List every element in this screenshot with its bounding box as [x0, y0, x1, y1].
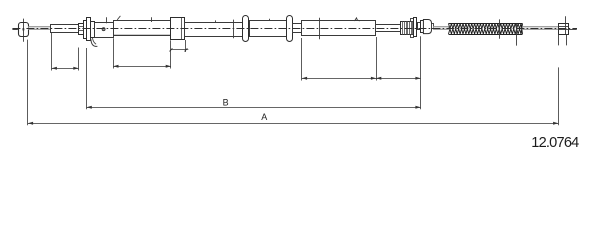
grommet ring 2	[287, 16, 293, 42]
dimension B	[87, 48, 421, 109]
clip tick 2	[151, 17, 153, 22]
adjuster neck	[418, 23, 421, 30]
section slash mark	[117, 16, 120, 20]
grommet ring 1	[243, 16, 249, 42]
mounting collar	[171, 18, 185, 40]
spring end mark 1	[499, 19, 501, 38]
conduit joint line	[233, 20, 235, 39]
svg-text:B: B	[223, 97, 229, 107]
rear conduit tube	[302, 21, 376, 36]
threaded rod left	[51, 25, 79, 33]
conduit joint line rear	[319, 18, 321, 40]
left cable end barrel	[12, 19, 28, 42]
conduit end collar	[91, 22, 95, 38]
conduit neck	[293, 24, 302, 33]
bulkhead fitting boot skirt	[90, 38, 97, 47]
spring end mark 2	[516, 24, 518, 46]
clip tick 3	[215, 20, 217, 22]
clip tick 1	[106, 17, 108, 23]
clip tick 4	[269, 19, 271, 21]
adjuster threaded block	[401, 19, 414, 38]
dome nipple	[421, 20, 434, 34]
break mark on rear conduit	[355, 18, 360, 21]
conduit segment 3	[185, 23, 243, 37]
bulkhead fitting plate stack	[78, 18, 91, 41]
conduit segment 2	[114, 21, 172, 36]
dimension d1 rod length	[52, 33, 79, 71]
vent hole symbol	[102, 28, 105, 31]
dimension d3 collar width	[170, 40, 189, 52]
return spring	[449, 24, 523, 35]
centerline	[12, 28, 577, 30]
right cable end barrel	[558, 16, 577, 45]
inner cable right segment	[434, 27, 449, 30]
dimension A	[28, 40, 559, 126]
svg-text:A: A	[261, 112, 267, 122]
inner cable rod rear	[376, 25, 401, 32]
inner cable tail segment	[523, 27, 559, 30]
dimension d4 chained rear sections	[302, 36, 421, 109]
svg-text:12.0764: 12.0764	[531, 135, 579, 151]
adjuster flange disc	[414, 18, 417, 37]
inner cable left segment	[29, 27, 51, 30]
dimension d2 front sheath section	[113, 38, 171, 68]
conduit segment 4	[250, 21, 287, 37]
conduit segment 1	[95, 23, 114, 38]
